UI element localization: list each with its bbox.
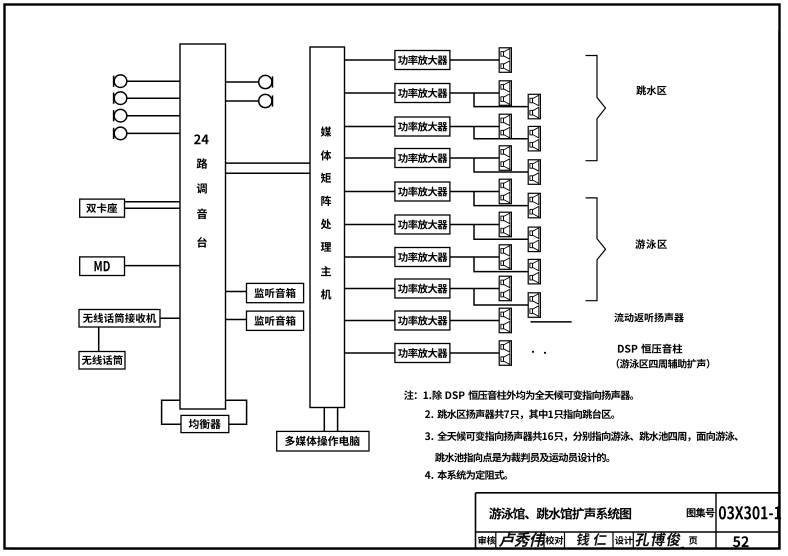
power amplifier A7 功率放大器 — [395, 248, 450, 267]
label 页 — [689, 536, 697, 544]
wire branch A5 to LS14 — [474, 192, 528, 206]
wire matrix to A3 — [345, 126, 395, 128]
wireless microphone 无线话筒 — [79, 352, 125, 370]
wire A9 to speaker LS9 — [450, 320, 499, 322]
wire A3 to speaker LS3 — [450, 126, 499, 128]
loudspeaker LS12 — [528, 126, 540, 150]
wire A1 to speaker LS1 — [450, 59, 499, 61]
wire mixer to 监听音箱 #2 — [226, 319, 247, 321]
atlas number 03X301-1 — [719, 506, 781, 519]
microphone MIC5 (right of mixer) — [259, 75, 273, 88]
wire matrix to A9 — [345, 320, 395, 322]
signature 校对人 — [576, 533, 608, 546]
label 校对 — [545, 536, 563, 545]
wire mixer to MIC6 — [226, 100, 259, 102]
label 审核 — [478, 536, 495, 545]
note line 2 — [425, 409, 614, 419]
power amplifier A1 功率放大器 — [395, 51, 450, 70]
loudspeaker LS5 — [499, 179, 511, 204]
note line 5 — [425, 470, 507, 480]
label 图集号 — [687, 508, 715, 518]
wire mixer to matrix (two lines) — [226, 163, 311, 173]
loudspeaker LS13 — [528, 160, 540, 185]
wire 双卡座 to mixer (pair) — [125, 202, 181, 208]
page number 52 — [733, 536, 749, 547]
wire matrix to A6 — [345, 224, 395, 226]
power amplifier A4 功率放大器 — [395, 149, 450, 168]
wire A6 to speaker LS6 — [450, 224, 499, 226]
wire branch A4 to LS13 — [474, 158, 528, 172]
wire mixer to MIC5 — [226, 81, 259, 83]
wire equalizer insert loop right — [226, 400, 247, 424]
note line 3 — [425, 431, 738, 441]
loudspeaker LS14 — [528, 193, 540, 218]
note line 4 — [435, 453, 609, 463]
wire matrix to A8 — [345, 288, 395, 290]
wireless mic receiver 无线话筒接收机 — [79, 310, 160, 328]
loudspeaker LS11 — [528, 94, 540, 119]
loudspeaker LS9 — [499, 308, 511, 333]
wire equalizer insert loop left — [162, 400, 181, 424]
multimedia PC 多媒体操作电脑 — [277, 431, 369, 451]
microphone MIC2 — [114, 92, 127, 105]
power amplifier A9 功率放大器 — [395, 311, 450, 330]
microphone MIC6 (right of mixer) — [259, 94, 273, 107]
power amplifier A6 功率放大器 — [395, 215, 450, 234]
wire receiver to mixer — [160, 317, 180, 319]
wire MIC3 to mixer input — [127, 115, 180, 117]
wire A7 to speaker LS7 — [450, 256, 499, 258]
wire matrix to A5 — [345, 191, 395, 193]
signature 设计人 — [635, 533, 684, 550]
wire branch A7 to LS16 — [474, 257, 528, 272]
loudspeaker LS17 — [528, 293, 540, 318]
monitor speaker box 监听音箱 #1 — [247, 283, 304, 302]
wire matrix to A1 — [345, 59, 395, 61]
loudspeaker LS10 — [499, 341, 511, 366]
node dots — [532, 351, 546, 354]
loudspeaker LS3 — [499, 114, 511, 139]
loudspeaker LS2 — [499, 81, 511, 106]
wire matrix to A4 — [345, 157, 395, 159]
wire branch A3 to LS12 — [474, 127, 528, 139]
wire A5 to speaker LS5 — [450, 191, 499, 193]
power amplifier A5 功率放大器 — [395, 182, 450, 201]
loudspeaker LS1 — [499, 48, 511, 73]
microphone MIC4 — [114, 127, 127, 140]
brace 游泳区 group — [586, 198, 606, 301]
wire branch A8 to LS17 — [474, 289, 528, 306]
media matrix host U2 媒体矩阵处理主机 — [310, 47, 345, 408]
wire matrix to A10 — [345, 352, 395, 354]
loudspeaker LS16 — [528, 259, 540, 284]
wire MD to mixer — [125, 265, 181, 267]
equalizer 均衡器 — [181, 415, 229, 432]
wire branch A2 to LS11 — [474, 93, 528, 107]
loudspeaker LS15 — [528, 227, 540, 252]
wire A2 to speaker LS2 — [450, 92, 499, 94]
power amplifier A2 功率放大器 — [395, 84, 450, 103]
label DSP 恒压音柱 — [618, 344, 682, 354]
signature 审核人 — [499, 532, 547, 547]
wire MIC4 to mixer input — [127, 132, 180, 134]
wire A8 to speaker LS8 — [450, 288, 499, 290]
mixer console U1 24路调音台 — [180, 44, 226, 409]
label 跳水区 — [636, 86, 666, 96]
wire MIC2 to mixer input — [127, 97, 180, 99]
label 设计 — [615, 536, 633, 545]
MD player — [80, 257, 125, 276]
loudspeaker LS7 — [499, 245, 511, 269]
wire matrix to PC (two lines) — [324, 408, 337, 432]
label 游泳区 — [635, 239, 667, 249]
label 流动返听扬声器 — [614, 313, 684, 322]
wire to portable monitor speaker — [531, 321, 572, 323]
power amplifier A3 功率放大器 — [395, 117, 450, 136]
loudspeaker LS8 — [499, 276, 511, 301]
power amplifier A8 功率放大器 — [395, 279, 450, 298]
brace 跳水区 group — [586, 56, 606, 161]
wire A4 to speaker LS4 — [450, 157, 499, 159]
wire MIC1 to mixer input — [127, 80, 180, 82]
monitor speaker box 监听音箱 #2 — [247, 311, 304, 330]
loudspeaker LS6 — [499, 212, 511, 237]
wire A10 to speaker LS10 — [450, 352, 499, 354]
wire mixer to 监听音箱 #1 — [226, 291, 247, 293]
label （游泳区四周辅助扩声） — [617, 359, 710, 369]
title block frame — [476, 493, 780, 549]
wire matrix to A2 — [345, 92, 395, 94]
wire branch A6 to LS15 — [474, 225, 528, 240]
power amplifier A10 功率放大器 — [395, 344, 450, 363]
microphone MIC1 — [114, 75, 127, 88]
loudspeaker LS4 — [499, 146, 511, 171]
dual cassette deck 双卡座 — [80, 199, 125, 217]
note line 1 — [404, 390, 633, 400]
wire matrix to A7 — [345, 256, 395, 258]
microphone MIC3 — [114, 109, 127, 122]
title 游泳馆、跳水馆扩声系统图 — [489, 507, 631, 519]
wire wireless mic to receiver — [98, 327, 100, 352]
